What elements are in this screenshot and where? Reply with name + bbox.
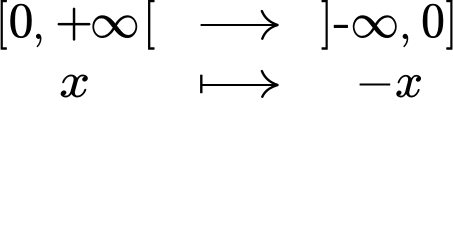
maps-to arrow row2 head — [262, 71, 278, 85]
plus sign — [58, 8, 91, 41]
maps-to arrow row2 shaft — [201, 84, 277, 86]
infinity row1 left — [93, 16, 137, 38]
variable x row2 right — [397, 75, 421, 97]
comma row1 left — [36, 34, 41, 47]
long right arrow row1 shaft — [201, 24, 277, 26]
digit 0 row1 left — [11, 4, 32, 38]
variable x row2 left — [61, 75, 88, 97]
minus sign row2 — [360, 84, 391, 86]
open bracket after +inf — [148, 0, 154, 50]
hyphen-minus before inf — [334, 25, 348, 28]
comma row1 right — [403, 34, 408, 47]
close bracket before -inf — [322, 0, 328, 50]
digit 0 row1 right — [423, 4, 443, 38]
maps-to arrow row2 vertical bar — [200, 75, 202, 94]
long right arrow row1 head — [262, 11, 278, 25]
infinity row1 right — [353, 16, 397, 38]
right bracket of -inf,0] — [447, 0, 453, 50]
left bracket of [0,+inf[ — [1, 0, 7, 50]
